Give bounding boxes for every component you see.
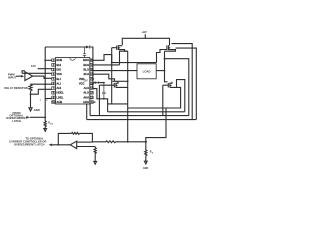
label Rds	[48, 122, 53, 126]
diode D1 bootstrap	[86, 46, 90, 49]
resistor Rds pulldown	[44, 117, 46, 128]
svg-text:LDEL: LDEL	[56, 95, 63, 99]
FROM OPTIONAL OVERCURRENT LATCH label	[6, 111, 27, 123]
wire sense line right	[116, 141, 147, 143]
wire VSS stub up	[22, 71, 25, 74]
svg-text:DIS: DIS	[56, 68, 61, 72]
IC U1 left pin labels	[56, 58, 64, 104]
svg-text:VSS: VSS	[56, 72, 62, 76]
op-amp U2 triangle	[70, 141, 76, 148]
junction dot latch wire	[44, 116, 46, 118]
wire Rdel top to ALI row	[31, 83, 52, 85]
wire load right	[156, 70, 164, 72]
buffer U2 triangle	[25, 72, 33, 81]
wire BHS right link	[165, 59, 189, 116]
wire right leg column upper	[165, 51, 168, 82]
svg-text:AHB: AHB	[56, 100, 62, 104]
svg-text:ALS: ALS	[84, 86, 90, 90]
wire BHS row	[93, 51, 128, 65]
wire ALS corner	[93, 89, 107, 112]
wire Q4 gate drop	[162, 85, 164, 115]
junction dot ALI row	[44, 83, 46, 85]
bottom bus line D	[87, 119, 197, 121]
bus line A	[128, 107, 181, 109]
wire Q1 gate drop	[111, 48, 113, 63]
svg-text:GND: GND	[143, 168, 148, 170]
svg-text:BLO: BLO	[83, 68, 89, 72]
wire BHB row stub	[45, 59, 52, 61]
arrow from latch	[26, 116, 29, 119]
transistor Q1 top-left FET	[112, 45, 128, 51]
junction dot load right	[164, 70, 166, 72]
TO OPTIONAL CURRENT CONTROLLER label	[9, 137, 46, 147]
wire Rdel bottom node	[30, 91, 32, 108]
junction dot BLI row	[44, 77, 46, 79]
svg-text:AHO: AHO	[83, 100, 89, 104]
resistor Rg to ground zigzag	[94, 147, 96, 162]
wire VSS row long left	[22, 72, 52, 74]
svg-text:C: C	[46, 100, 48, 102]
+HV tick	[144, 34, 146, 38]
svg-text:BHO: BHO	[83, 58, 89, 62]
wire AHO stub	[93, 101, 95, 103]
wire Q3 gate drop	[98, 85, 100, 115]
junction dot AHS drop	[111, 62, 113, 64]
IC U1 right pin stubs	[90, 59, 93, 103]
wire below IC left riser 2	[89, 104, 91, 116]
wire HDEL stub	[45, 98, 52, 100]
junction dot cap bottom	[103, 98, 105, 100]
wire LDEL step	[31, 89, 52, 94]
svg-text:DS: DS	[50, 123, 53, 125]
ground arrow below Rs	[144, 161, 147, 164]
junction dot BHB row	[44, 59, 46, 61]
IC U1 right pin labels	[79, 58, 89, 104]
junction dot right column BHS	[164, 58, 166, 60]
IC U1 left pin stubs	[52, 59, 55, 103]
wire sense line	[92, 141, 106, 143]
svg-text:HDEL: HDEL	[56, 91, 64, 95]
wire Q2 source outer wrap	[176, 48, 197, 120]
wire non-inverting input	[77, 146, 96, 148]
svg-text:LATCH: LATCH	[12, 119, 21, 123]
resistor Ri horizontal zigzag	[106, 141, 116, 143]
wire op-amp output left	[52, 144, 70, 146]
wire AHS drop	[111, 63, 113, 104]
svg-text:GND: GND	[34, 108, 40, 112]
wire Q2 gate staircase	[157, 50, 167, 63]
transistor Q2 top-right FET	[165, 45, 176, 51]
IC U1 pin number marks	[52, 59, 93, 104]
wire lower-left drain	[112, 80, 127, 82]
wire BHO outer wrap	[172, 44, 193, 120]
resistor Rdel zigzag	[29, 84, 32, 91]
resistor Rf feedback zigzag	[72, 132, 80, 134]
svg-text:AHS: AHS	[83, 95, 89, 99]
junction dot Rs top	[145, 141, 147, 143]
PWM input arrow	[16, 75, 21, 77]
svg-text:C: C	[40, 100, 42, 102]
wire 12V to DIS pin row	[38, 68, 52, 70]
svg-text:BLS: BLS	[84, 72, 90, 76]
PWM INPUT label	[8, 72, 16, 79]
svg-text:LOAD: LOAD	[143, 69, 151, 73]
junction dot DIS row	[44, 68, 46, 70]
wire Q4 source down path	[146, 87, 181, 141]
ground GND arrow left	[29, 108, 32, 111]
label Rs	[150, 151, 154, 155]
capacitor C1 bootstrap B-side	[83, 47, 86, 58]
svg-text:BHI: BHI	[56, 63, 61, 67]
wire D2 to node	[98, 82, 104, 84]
junction dot left leg bottom	[127, 141, 129, 143]
svg-text:INPUT: INPUT	[8, 75, 16, 79]
junction dot Rdel bottom	[30, 93, 32, 95]
wire AHO link	[108, 103, 128, 105]
wire inverting input	[77, 141, 93, 143]
transistor Q4 bottom-right FET	[163, 82, 177, 88]
LOAD box	[137, 64, 156, 79]
wire top rail	[122, 38, 169, 45]
svg-text:+HV: +HV	[141, 30, 147, 34]
wire diode to right column	[90, 47, 93, 89]
svg-text:AHI: AHI	[56, 86, 61, 90]
svg-text:BLI: BLI	[56, 77, 61, 81]
resistor Rs sense zigzag	[145, 142, 147, 161]
junction dot feedback tap	[57, 144, 59, 146]
wire BLS staircase	[93, 74, 114, 81]
node blobs near LDEL	[40, 100, 49, 102]
arrow to controller	[49, 144, 52, 147]
junction dot AHB node	[103, 82, 105, 84]
junction dot VCC row	[92, 83, 94, 85]
svg-text:S: S	[152, 152, 154, 154]
svg-text:OVERCURRENT LATCH: OVERCURRENT LATCH	[14, 142, 44, 146]
wire feedback riser	[58, 133, 71, 144]
svg-text:ALI: ALI	[56, 81, 61, 85]
wire BHB bootstrap top	[45, 46, 86, 48]
bottom bus line B	[108, 111, 185, 113]
ground arrow below Rds	[44, 129, 47, 132]
wire latch to DIS rail	[30, 116, 45, 118]
wire BHO row staircase	[93, 55, 156, 63]
wire load left	[93, 70, 137, 72]
junction dot lower-left drain	[127, 80, 129, 82]
svg-text:BHS: BHS	[83, 63, 89, 67]
svg-text:12V: 12V	[83, 80, 88, 82]
svg-text:DELAY RESISTOR: DELAY RESISTOR	[4, 86, 27, 90]
IC U1 body	[56, 58, 90, 105]
svg-text:BHB: BHB	[56, 58, 62, 62]
wire below IC left riser 1	[86, 104, 88, 120]
svg-text:ALO: ALO	[83, 91, 89, 95]
junction dot staircase-column	[127, 62, 129, 64]
rail node 12V vertical	[44, 47, 46, 117]
wire left leg column	[127, 51, 129, 142]
capacitor C2 bootstrap A-side	[102, 83, 106, 99]
transistor Q3 bottom-left FET	[99, 81, 127, 87]
wire buffer output to BLI row	[33, 76, 52, 78]
junction dot VDD row	[92, 78, 94, 80]
junction dot load left	[127, 70, 129, 72]
svg-text:12V: 12V	[31, 64, 36, 68]
wire Q4 source up wrap	[177, 80, 185, 112]
diode D2 bootstrap A-side	[93, 81, 98, 84]
bottom bus line C	[90, 115, 189, 117]
ground arrow below Rg	[94, 161, 97, 164]
wire feedback to inverting input	[80, 133, 93, 142]
